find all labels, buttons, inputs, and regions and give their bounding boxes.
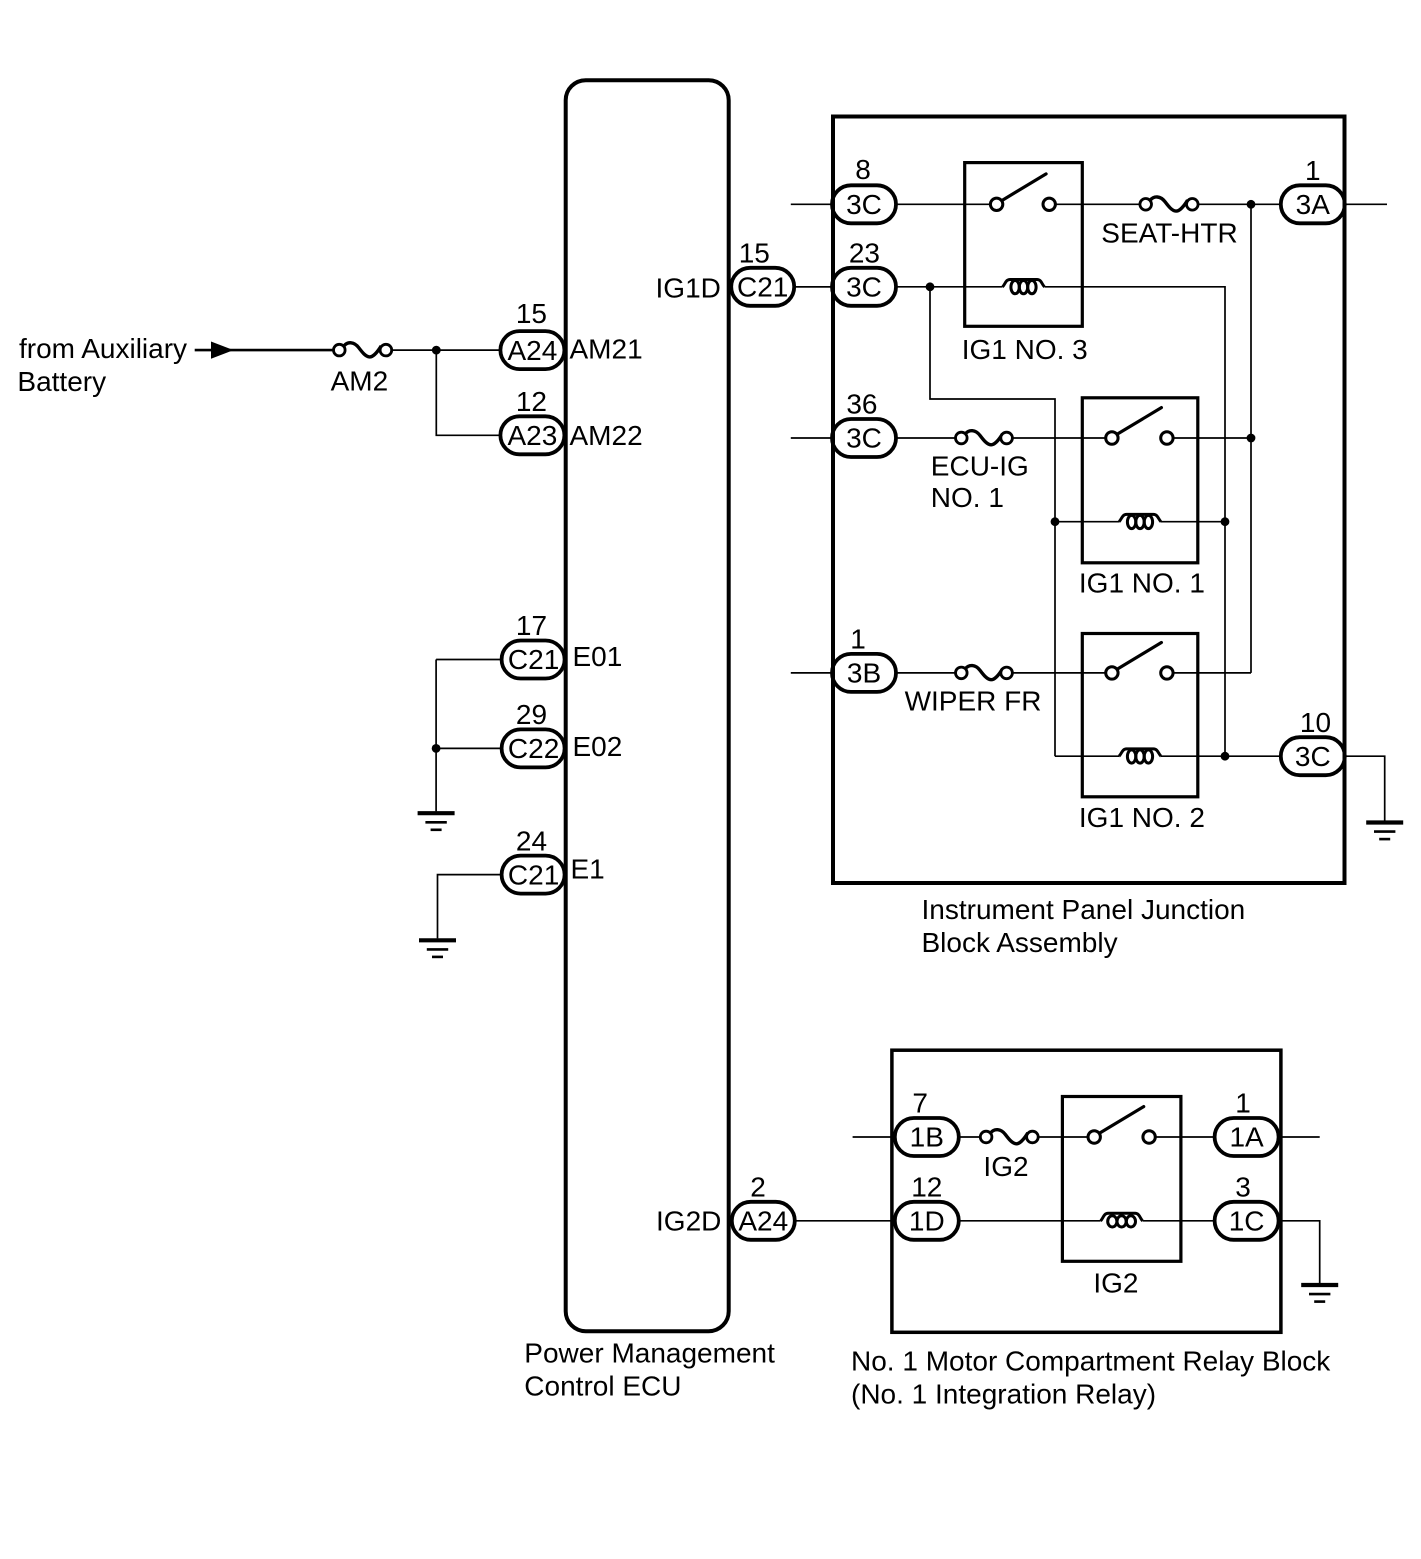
svg-text:AM2: AM2 <box>331 366 389 397</box>
connector C21 pin15 IG1D <box>731 268 794 306</box>
connector 1C pin3 <box>1215 1202 1279 1240</box>
svg-text:C21: C21 <box>508 859 559 890</box>
svg-text:1: 1 <box>1305 155 1321 186</box>
svg-text:1: 1 <box>1235 1088 1251 1119</box>
Instrument Panel Junction Block box <box>833 117 1345 884</box>
fuse SEAT-HTR <box>1140 197 1198 211</box>
relay IG1 NO.2 box <box>1082 634 1198 797</box>
wire IG1 NO.3 coil right, down to IG1 NO.2 coil row <box>1045 287 1226 756</box>
wire IG2D A24 through 1D pin12 to IG2 coil <box>795 1220 1101 1222</box>
connector 3C pin36 <box>832 419 896 457</box>
svg-text:C21: C21 <box>508 644 559 675</box>
junction node bus at IG1 NO.1 contact <box>1247 434 1256 443</box>
junction node on E01/E02 ground wire <box>432 744 441 753</box>
arrow from Auxiliary Battery <box>211 342 234 359</box>
svg-text:1D: 1D <box>909 1206 945 1237</box>
connector 3C pin8 <box>832 185 896 223</box>
svg-text:IG1 NO. 3: IG1 NO. 3 <box>962 334 1088 365</box>
svg-text:3A: 3A <box>1296 189 1331 220</box>
wire E02 to ground junction <box>436 747 502 749</box>
svg-text:SEAT-HTR: SEAT-HTR <box>1101 217 1237 248</box>
svg-text:AM22: AM22 <box>570 420 643 451</box>
relay IG1 NO.1 coil <box>1119 514 1161 528</box>
label from Auxiliary Battery <box>17 333 187 397</box>
relay IG1 NO.3 box <box>965 163 1083 327</box>
junction node IG1 NO.1 coil right <box>1221 517 1230 526</box>
wire E01 to ground junction <box>436 659 502 661</box>
wire SEAT-HTR row: 3C pin8 stub to relay contact <box>791 203 997 205</box>
wire WIPER row: fuse to IG1 NO.2 contact <box>1007 672 1112 674</box>
wire WIPER row: 3B pin1 stub to fuse <box>791 672 962 674</box>
wire IG2 row: 1B pin7 stub to fuse IG2 <box>853 1136 987 1138</box>
connector A24 pin2 IG2D <box>732 1202 795 1240</box>
connector A24 pin15 AM21 <box>500 331 564 369</box>
fuse ECU-IG NO.1 <box>956 431 1013 445</box>
svg-text:15: 15 <box>739 238 770 269</box>
svg-text:17: 17 <box>516 610 547 641</box>
connector 1B pin7 <box>895 1118 959 1156</box>
svg-text:3C: 3C <box>846 189 882 220</box>
junction node on SEAT-HTR line before 3A <box>1247 200 1256 209</box>
relay IG1 NO.1 switch <box>1106 408 1173 445</box>
svg-text:10: 10 <box>1300 707 1331 738</box>
wire SEAT-HTR row: relay contact to fuse SEAT-HTR <box>1049 203 1146 205</box>
wire bus from SEAT-HTR row down to WIPER row <box>1250 204 1252 673</box>
wire IG2 coil right through 1C pin3 down to ground G4 <box>1143 1221 1320 1283</box>
wire ECU-IG row: 3C pin36 stub to fuse <box>791 437 962 439</box>
junction node A on AM2 line <box>432 346 441 355</box>
svg-text:E1: E1 <box>571 853 605 884</box>
fuse IG2 <box>980 1130 1038 1144</box>
svg-text:ECU-IG: ECU-IG <box>931 451 1029 482</box>
ground G2 for E1 <box>419 940 456 957</box>
svg-text:IG2: IG2 <box>1093 1268 1138 1299</box>
No.1 Motor Compartment Relay Block box <box>892 1050 1281 1332</box>
svg-text:IG1 NO. 2: IG1 NO. 2 <box>1079 802 1205 833</box>
wire fuse AM2 to node A <box>386 349 501 351</box>
junction node B after 3C pin23 <box>926 282 935 291</box>
ground G4 for 1C pin3 <box>1301 1285 1338 1302</box>
svg-text:1C: 1C <box>1229 1206 1265 1237</box>
connector C21 pin17 E01 <box>502 641 565 679</box>
relay IG2 coil <box>1101 1213 1143 1227</box>
relay IG1 NO.3 switch <box>990 174 1055 211</box>
wire E1 to ground G2 <box>438 875 502 939</box>
connector 1A pin1 <box>1215 1118 1279 1156</box>
svg-text:7: 7 <box>912 1088 928 1119</box>
relay IG2 box <box>1062 1097 1181 1262</box>
wire SEAT-HTR row: fuse to 3A pin1 and out <box>1192 203 1387 205</box>
svg-text:IG2D: IG2D <box>656 1206 721 1237</box>
wire IG2 relay contact right through 1A pin1 <box>1149 1136 1320 1138</box>
connector C22 pin29 E02 <box>502 729 565 767</box>
relay IG1 NO.1 box <box>1082 398 1198 563</box>
junction node IG1 NO.1 coil left <box>1051 517 1060 526</box>
ground G3 for 3C pin10 <box>1366 823 1403 840</box>
svg-text:No. 1 Motor Compartment Relay: No. 1 Motor Compartment Relay Block <box>851 1346 1331 1377</box>
svg-text:3C: 3C <box>1295 741 1331 772</box>
fuse WIPER FR <box>956 666 1013 680</box>
svg-text:12: 12 <box>516 386 547 417</box>
svg-text:A23: A23 <box>507 420 557 451</box>
wire IG1 NO.1 contact right to bus <box>1167 437 1251 439</box>
wire IG1 NO.1 coil left <box>1055 521 1119 523</box>
connector 3A pin1 <box>1281 185 1345 223</box>
svg-text:A24: A24 <box>738 1206 788 1237</box>
wire from battery arrow to fuse AM2 <box>195 349 340 352</box>
wire IG1 NO.2 coil right to 3C pin10 and ground G3 <box>1161 756 1385 820</box>
fuse AM2 <box>334 343 392 357</box>
svg-text:Battery: Battery <box>17 366 106 397</box>
svg-text:29: 29 <box>516 699 547 730</box>
value label ECU-IG NO.1 <box>931 451 1029 514</box>
svg-text:1A: 1A <box>1229 1122 1264 1153</box>
svg-text:8: 8 <box>855 154 871 185</box>
wire IG1D C21 to 3C pin23 <box>794 286 832 288</box>
wire IG1 NO.2 contact right to bus <box>1167 672 1251 674</box>
svg-text:3: 3 <box>1235 1172 1251 1203</box>
svg-text:Power Management: Power Management <box>524 1337 775 1368</box>
svg-text:3B: 3B <box>847 658 881 689</box>
svg-text:24: 24 <box>516 825 547 856</box>
label Instrument Panel Junction Block Assembly <box>922 894 1246 958</box>
connector 3B pin1 <box>832 654 896 692</box>
svg-text:IG1D: IG1D <box>656 273 721 304</box>
relay IG1 NO.2 switch <box>1106 643 1173 680</box>
connector 1D pin12 <box>895 1202 959 1240</box>
svg-text:IG2: IG2 <box>983 1151 1028 1182</box>
wire ECU-IG row: fuse to IG1 NO.1 contact <box>1007 437 1112 439</box>
svg-text:3C: 3C <box>846 272 882 303</box>
wire 3C pin23 to IG1 NO.3 coil <box>794 286 1002 288</box>
svg-text:Instrument Panel Junction: Instrument Panel Junction <box>922 894 1246 925</box>
connector A23 pin12 AM22 <box>500 416 564 454</box>
svg-text:36: 36 <box>846 389 877 420</box>
label No.1 Motor Compartment Relay Block <box>851 1346 1331 1410</box>
svg-text:C22: C22 <box>508 733 559 764</box>
svg-text:3C: 3C <box>846 423 882 454</box>
ground G1 for E01/E02 <box>418 813 455 830</box>
svg-text:(No. 1 Integration Relay): (No. 1 Integration Relay) <box>851 1379 1156 1410</box>
svg-text:2: 2 <box>750 1172 766 1203</box>
relay IG1 NO.3 coil <box>1003 280 1045 294</box>
svg-text:12: 12 <box>911 1172 942 1203</box>
svg-text:Control ECU: Control ECU <box>524 1370 681 1401</box>
junction node IG1 NO.2 coil right <box>1221 752 1230 761</box>
svg-text:A24: A24 <box>507 335 557 366</box>
svg-text:23: 23 <box>849 238 880 269</box>
wire IG1 NO.1 coil right <box>1161 521 1225 523</box>
wire ground junction vertical to ground G1 <box>435 660 437 812</box>
svg-text:IG1 NO. 1: IG1 NO. 1 <box>1079 568 1205 599</box>
svg-text:NO. 1: NO. 1 <box>931 482 1004 513</box>
svg-text:1: 1 <box>850 624 866 655</box>
wire node A down to AM22 branch <box>436 350 500 435</box>
connector 3C pin10 <box>1281 737 1345 775</box>
svg-text:from Auxiliary: from Auxiliary <box>19 333 187 364</box>
wire IG1 NO.2 coil left <box>1055 755 1119 757</box>
svg-text:15: 15 <box>516 298 547 329</box>
relay IG2 switch <box>1088 1107 1155 1144</box>
Power Management Control ECU box U1 <box>566 80 729 1331</box>
svg-text:Block Assembly: Block Assembly <box>922 927 1118 958</box>
connector C21 pin24 E1 <box>502 856 565 894</box>
wire IG2 row: fuse to IG2 relay contact <box>1032 1136 1094 1138</box>
svg-text:C21: C21 <box>737 272 788 303</box>
svg-text:AM21: AM21 <box>570 334 643 365</box>
svg-text:WIPER FR: WIPER FR <box>905 686 1042 717</box>
svg-text:1B: 1B <box>910 1122 944 1153</box>
svg-text:E02: E02 <box>573 731 623 762</box>
svg-text:E01: E01 <box>573 641 623 672</box>
connector 3C pin23 <box>832 268 896 306</box>
label Power Management Control ECU <box>524 1337 775 1401</box>
wire node B branch down and over <box>930 287 1055 756</box>
relay IG1 NO.2 coil <box>1119 749 1161 763</box>
